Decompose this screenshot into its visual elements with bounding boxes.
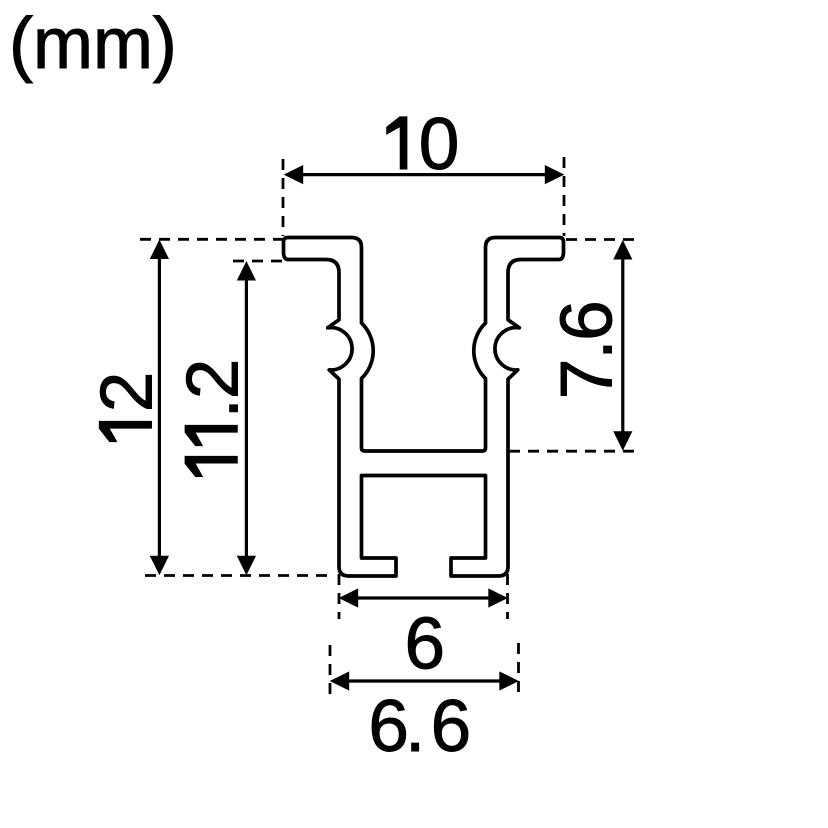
dim 6: right arrowhead: [488, 588, 508, 607]
dim 7.6: bottom arrowhead: [613, 431, 632, 451]
svg-text:6: 6: [547, 300, 628, 341]
svg-text:7: 7: [547, 359, 628, 400]
dim 11.2: bottom arrowhead: [237, 556, 256, 576]
svg-text:.: .: [547, 340, 628, 360]
svg-text:(mm): (mm): [9, 4, 177, 84]
dim 10: right extension dashed line: [563, 157, 566, 236]
dim 7.6: bottom extension dashed line: [509, 450, 640, 453]
dim 12: arrow line: [158, 243, 161, 571]
dim 6.6: right extension dashed line: [517, 643, 520, 698]
dim 12: text: [87, 372, 168, 442]
svg-text:2: 2: [87, 372, 168, 413]
dim 11.2: extension dashed line: [233, 260, 283, 263]
dim 12: bottom arrowhead: [150, 556, 169, 576]
dim 6: left arrowhead: [339, 588, 359, 607]
svg-text:2: 2: [172, 359, 253, 400]
dim 7.6: text: [547, 300, 628, 399]
svg-text:6: 6: [405, 604, 446, 685]
svg-text:.: .: [405, 686, 425, 767]
dim 12: top arrowhead: [150, 240, 169, 260]
svg-text:0: 0: [419, 104, 460, 185]
dim 6.6: arrow line: [334, 679, 515, 682]
dim 11.2: arrow line: [245, 265, 248, 571]
svg-text:.: .: [172, 398, 253, 418]
svg-text:6: 6: [431, 686, 472, 767]
dim 6: arrow line: [343, 596, 504, 599]
dim 12: top extension dashed line: [140, 238, 283, 241]
dim 10: left arrowhead: [284, 165, 304, 184]
dim 6.6: text: [368, 686, 471, 767]
svg-text:6: 6: [368, 686, 409, 767]
dim 12: bottom extension dashed line: [145, 574, 335, 577]
dim 10: text: [387, 104, 460, 185]
dim 7.6: top arrowhead: [613, 240, 632, 260]
dim 6: left extension dashed line: [338, 574, 341, 619]
dim 6.6: left arrowhead: [330, 671, 350, 690]
dim 7.6: top extension dashed line: [566, 238, 640, 241]
dim 6.6: right arrowhead: [499, 671, 519, 690]
dim 7.6: arrow line: [621, 243, 624, 447]
dim 10: right arrowhead: [545, 165, 565, 184]
dim 10: arrow line: [288, 173, 560, 176]
dim 6: right extension dashed line: [506, 574, 509, 619]
dim 11.2: text: [172, 359, 253, 477]
dim 6.6: left extension dashed line: [329, 645, 332, 700]
dim 11.2: top arrowhead: [237, 261, 256, 281]
extrusion profile outline: [284, 238, 564, 577]
dim 10: left extension dashed line: [282, 159, 285, 236]
